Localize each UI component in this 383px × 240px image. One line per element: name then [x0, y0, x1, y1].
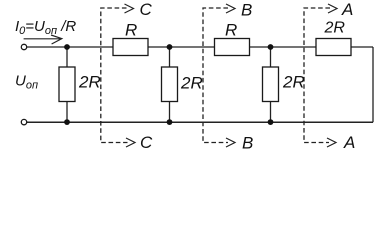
svg-text:R: R: [225, 21, 237, 40]
svg-text:2R: 2R: [180, 74, 203, 93]
wire bottom rail: [27, 121, 373, 123]
svg-text:C: C: [140, 0, 153, 19]
input terminal bottom (open circle): [21, 119, 26, 124]
junction node bottom rail / shunt 2: [167, 119, 173, 125]
svg-text:B: B: [242, 134, 253, 153]
wire stub node C top: [66, 47, 68, 67]
wire top rail: R2 to termination 2R: [250, 46, 317, 48]
wire top rail: 2R to right edge: [351, 46, 373, 48]
svg-text:R: R: [125, 21, 137, 40]
junction node top rail / shunt 2: [167, 44, 173, 50]
arrowhead B top: [226, 4, 235, 13]
wire stub node B bottom: [169, 102, 171, 123]
current arrow I0: [24, 35, 62, 44]
cut line B (dashed): [203, 8, 228, 143]
svg-text:2R: 2R: [78, 73, 101, 92]
arrowhead C bottom: [126, 138, 135, 147]
resistor 2R (shunt 2): [162, 67, 178, 102]
cut line C (dashed): [101, 8, 128, 143]
resistor 2R (shunt 3): [263, 67, 279, 102]
svg-text:A: A: [343, 133, 355, 152]
wire top rail: R1 to R2: [148, 46, 215, 48]
svg-text:2R: 2R: [324, 20, 346, 37]
arrowhead A bottom: [327, 138, 336, 147]
junction node bottom rail / shunt 3: [268, 119, 274, 125]
wire stub node A top: [270, 47, 272, 67]
svg-text:C: C: [140, 133, 153, 152]
wire top rail: input terminal to R1: [27, 46, 113, 48]
arrowhead A top: [328, 4, 337, 13]
svg-text:B: B: [241, 1, 252, 20]
wire stub node B top: [169, 47, 171, 67]
wire stub node A bottom: [270, 102, 272, 123]
wire right edge vertical: [372, 47, 374, 122]
cut line A (dashed): [304, 8, 330, 143]
svg-text:I0=Uоп /R: I0=Uоп /R: [15, 18, 76, 37]
resistor 2R (shunt 1): [59, 67, 75, 102]
resistor R (series, section C): [113, 39, 148, 56]
junction node top rail / shunt 3: [268, 44, 274, 50]
resistor 2R (termination, top right): [316, 39, 351, 56]
junction node top rail / shunt 1: [64, 44, 70, 50]
resistor R (series, section B): [215, 39, 250, 56]
arrowhead B bottom: [226, 138, 235, 147]
wire stub node C bottom: [66, 102, 68, 123]
junction node bottom rail / shunt 1: [64, 119, 70, 125]
svg-text:A: A: [341, 0, 353, 19]
arrowhead C top: [125, 4, 134, 13]
input terminal top (open circle): [21, 44, 26, 49]
svg-text:2R: 2R: [282, 73, 305, 92]
svg-text:Uоп: Uоп: [15, 73, 38, 92]
